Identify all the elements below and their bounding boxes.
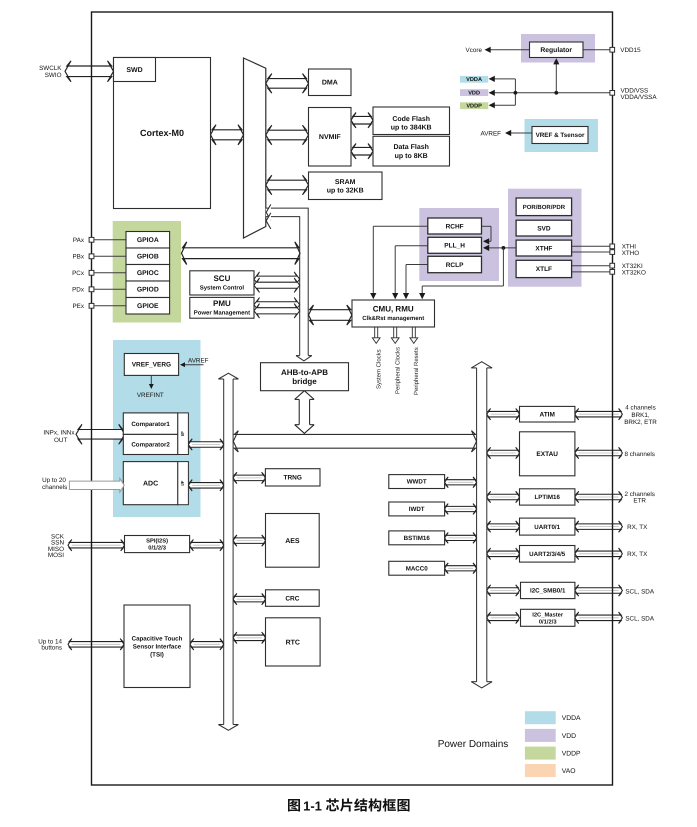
svg-text:Vcore: Vcore (466, 47, 483, 54)
svg-text:VAO: VAO (562, 768, 576, 775)
svg-text:CRC: CRC (285, 595, 299, 602)
svg-text:PEx: PEx (72, 303, 84, 310)
svg-text:ATIM: ATIM (539, 412, 554, 419)
svg-text:AES: AES (285, 538, 300, 545)
svg-text:BSTIM16: BSTIM16 (404, 535, 431, 542)
svg-text:VDDP: VDDP (562, 751, 581, 758)
svg-text:Clk&Rst management: Clk&Rst management (362, 315, 424, 322)
svg-text:NVMIF: NVMIF (319, 134, 342, 141)
svg-text:PDx: PDx (72, 287, 85, 294)
svg-text:GPIOB: GPIOB (137, 254, 159, 261)
svg-text:VDDP: VDDP (466, 104, 482, 110)
svg-text:SPI(I2S): SPI(I2S) (146, 538, 168, 545)
svg-text:BRK1,: BRK1, (631, 412, 649, 419)
svg-text:IWDT: IWDT (409, 506, 425, 513)
svg-text:RCHF: RCHF (446, 223, 464, 230)
svg-text:XTLF: XTLF (536, 266, 552, 273)
svg-text:ADC: ADC (143, 481, 158, 488)
svg-text:XTHF: XTHF (535, 245, 552, 252)
svg-text:EXTAU: EXTAU (536, 451, 558, 458)
svg-text:UART0/1: UART0/1 (534, 524, 560, 531)
svg-text:SCU: SCU (213, 274, 230, 283)
svg-text:Up to 20: Up to 20 (42, 477, 66, 484)
svg-text:I2C_SMB0/1: I2C_SMB0/1 (530, 588, 566, 595)
svg-text:SVD: SVD (537, 225, 551, 232)
svg-text:GPIOE: GPIOE (137, 303, 159, 310)
svg-text:SWD: SWD (126, 67, 142, 74)
svg-text:I2C_Master: I2C_Master (532, 611, 564, 618)
svg-text:up to 8KB: up to 8KB (395, 153, 428, 160)
svg-text:PBx: PBx (72, 254, 84, 261)
svg-text:WWDT: WWDT (407, 479, 427, 486)
svg-text:PMU: PMU (213, 299, 231, 308)
svg-text:GPIOC: GPIOC (137, 270, 159, 277)
svg-text:AHB-to-APB: AHB-to-APB (281, 368, 328, 377)
svg-text:buttons: buttons (41, 645, 62, 652)
svg-text:UART2/3/4/5: UART2/3/4/5 (529, 551, 566, 558)
svg-text:INPx, INNx: INPx, INNx (43, 430, 75, 437)
svg-text:Cortex-M0: Cortex-M0 (140, 128, 184, 138)
svg-text:GPIOA: GPIOA (137, 237, 159, 244)
svg-text:VDD15: VDD15 (620, 47, 641, 54)
svg-text:GPIOD: GPIOD (137, 287, 159, 294)
svg-text:ETR: ETR (633, 498, 646, 505)
svg-text:1-1: 1-1 (303, 798, 322, 813)
svg-text:Code Flash: Code Flash (392, 115, 430, 123)
svg-text:(TSI): (TSI) (150, 651, 164, 658)
svg-text:SWIO: SWIO (45, 72, 62, 79)
svg-text:AVREF: AVREF (188, 358, 209, 365)
svg-text:8 channels: 8 channels (624, 451, 654, 458)
svg-text:Data Flash: Data Flash (393, 143, 428, 151)
svg-text:RX, TX: RX, TX (627, 551, 648, 558)
svg-text:RCLP: RCLP (446, 262, 464, 269)
svg-text:VDDA: VDDA (466, 77, 482, 83)
svg-text:channels: channels (42, 484, 67, 491)
svg-text:VDD: VDD (468, 91, 480, 97)
svg-text:VDDA/VSSA: VDDA/VSSA (621, 94, 658, 101)
svg-text:RX, TX: RX, TX (627, 524, 648, 531)
svg-text:VDD: VDD (562, 733, 576, 740)
svg-text:PAx: PAx (73, 237, 85, 244)
svg-text:0/1/2/3: 0/1/2/3 (148, 545, 167, 552)
svg-text:OUT: OUT (54, 437, 67, 444)
svg-text:System Control: System Control (200, 285, 245, 292)
svg-text:AVREF: AVREF (480, 130, 501, 137)
svg-text:4 channels: 4 channels (625, 405, 655, 412)
svg-text:SCL, SDA: SCL, SDA (625, 615, 654, 622)
svg-text:Regulator: Regulator (540, 47, 572, 54)
svg-text:SRAM: SRAM (335, 179, 356, 186)
svg-text:up to 32KB: up to 32KB (327, 188, 364, 195)
svg-text:XTHO: XTHO (622, 250, 640, 257)
svg-text:up to 384KB: up to 384KB (391, 125, 432, 132)
svg-text:SCL, SDA: SCL, SDA (625, 588, 654, 595)
svg-text:XT32KO: XT32KO (622, 269, 646, 276)
svg-text:Sensor Interface: Sensor Interface (133, 643, 182, 650)
svg-text:Capacitive Touch: Capacitive Touch (132, 635, 183, 642)
svg-text:0/1/2/3: 0/1/2/3 (539, 618, 558, 625)
svg-text:LPTIM16: LPTIM16 (534, 494, 560, 501)
svg-text:VREF & Tsensor: VREF & Tsensor (536, 132, 585, 139)
svg-text:BRK2, ETR: BRK2, ETR (624, 419, 657, 426)
svg-text:System Clocks: System Clocks (375, 349, 382, 389)
svg-text:I/F: I/F (180, 431, 185, 436)
svg-text:Comparator2: Comparator2 (131, 442, 170, 449)
svg-text:PCx: PCx (72, 270, 85, 277)
svg-text:PLL_H: PLL_H (444, 243, 465, 250)
svg-text:TRNG: TRNG (283, 475, 301, 482)
svg-text:VDDA: VDDA (562, 715, 581, 722)
svg-text:bridge: bridge (292, 377, 317, 386)
svg-text:VREF_VERG: VREF_VERG (132, 362, 171, 369)
svg-text:DMA: DMA (322, 80, 338, 87)
svg-text:Peripheral Resets: Peripheral Resets (413, 347, 420, 395)
svg-text:CMU, RMU: CMU, RMU (373, 305, 414, 314)
svg-text:Power Domains: Power Domains (438, 739, 509, 750)
svg-text:Power Management: Power Management (194, 310, 250, 317)
svg-text:Comparator1: Comparator1 (131, 421, 170, 428)
svg-text:VREFINT: VREFINT (137, 392, 164, 399)
svg-text:MOSI: MOSI (48, 552, 64, 559)
svg-text:POR/BOR/PDR: POR/BOR/PDR (523, 204, 566, 211)
svg-text:MACC0: MACC0 (406, 565, 429, 572)
svg-text:I/F: I/F (180, 480, 185, 485)
svg-text:RTC: RTC (286, 639, 300, 646)
svg-text:Peripheral Clocks: Peripheral Clocks (394, 347, 401, 394)
